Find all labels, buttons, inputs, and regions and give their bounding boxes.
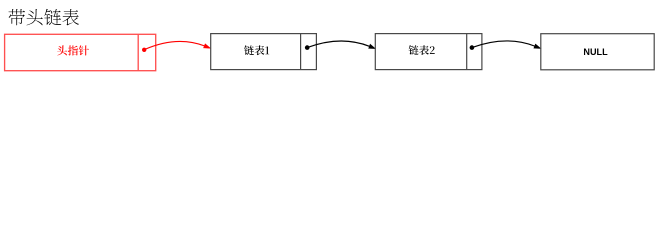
node box 2 — [375, 34, 482, 70]
arrow node1 to node2 — [307, 41, 369, 48]
node1 pointer dot — [305, 45, 310, 50]
head-pointer label 头指针 — [57, 45, 89, 55]
node2 pointer dot — [470, 45, 475, 50]
svg-text:NULL: NULL — [583, 47, 608, 57]
node box 1 — [211, 34, 317, 70]
node1 label 链表1 — [244, 45, 269, 55]
title text 带头链表 — [9, 9, 79, 26]
node2 label 链表2 — [409, 45, 435, 55]
head-pointer dot — [142, 48, 146, 52]
head-pointer box — [5, 34, 156, 70]
arrow node2 to NULL — [472, 41, 535, 48]
red arrow head-pointer to node1 — [145, 41, 205, 49]
NULL box — [541, 34, 654, 70]
